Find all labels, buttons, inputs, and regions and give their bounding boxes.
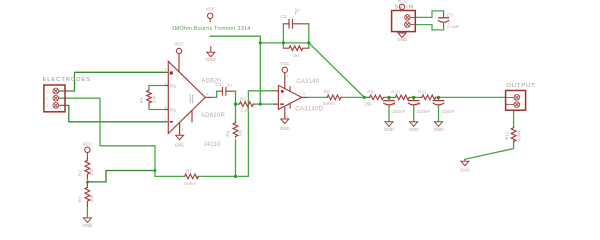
svg-text:R4: R4 bbox=[225, 130, 230, 136]
svg-text:2: 2 bbox=[47, 97, 49, 101]
wire RG resistor top bbox=[149, 86, 168, 89]
svg-text:C1: C1 bbox=[216, 82, 222, 87]
connector OUTPUT bbox=[506, 91, 526, 111]
vcc VCC (AD620 supply) bbox=[176, 48, 181, 53]
svg-text:25k: 25k bbox=[364, 102, 372, 107]
wire HPF node to R6 and CA3140 -IN bbox=[237, 103, 273, 105]
svg-text:R5: R5 bbox=[289, 41, 295, 46]
svg-text:GND: GND bbox=[83, 223, 93, 228]
svg-text:R1: R1 bbox=[139, 97, 144, 103]
svg-text:GND: GND bbox=[175, 142, 185, 147]
svg-text:RG: RG bbox=[170, 83, 177, 88]
svg-text:10k: 10k bbox=[89, 194, 94, 202]
svg-text:6: 6 bbox=[206, 92, 208, 96]
wire AD620 output to C1 bbox=[212, 91, 219, 97]
svg-text:GND: GND bbox=[384, 127, 394, 132]
node trimmer/feedback junction bbox=[259, 41, 262, 44]
resistor R10 bbox=[393, 95, 411, 100]
svg-text:GND: GND bbox=[397, 37, 407, 42]
node R4 reference rail bbox=[234, 175, 237, 178]
svg-text:3: 3 bbox=[273, 86, 275, 90]
wire OUTPUT pin2 down bbox=[513, 110, 515, 126]
svg-text:ELECTRODES: ELECTRODES bbox=[43, 77, 91, 83]
vcc VCC (divider) bbox=[85, 147, 90, 155]
svg-text:0ohm: 0ohm bbox=[184, 181, 196, 186]
svg-text:220nF: 220nF bbox=[392, 109, 405, 114]
svg-text:1: 1 bbox=[396, 16, 398, 20]
capacitor C5 bbox=[408, 97, 420, 105]
wire RG resistor bottom bbox=[149, 106, 168, 109]
svg-text:C2: C2 bbox=[280, 14, 286, 19]
svg-text:VCC: VCC bbox=[280, 61, 289, 66]
svg-text:R6: R6 bbox=[240, 96, 246, 101]
svg-text:10k: 10k bbox=[151, 95, 156, 103]
svg-text:R2: R2 bbox=[78, 170, 83, 176]
wire CA3140 output to R8 bbox=[308, 96, 326, 98]
resistor R8 bbox=[326, 95, 343, 100]
svg-text:8: 8 bbox=[165, 105, 167, 109]
svg-text:GND: GND bbox=[460, 167, 470, 172]
node divider midpoint bbox=[86, 180, 89, 183]
svg-text:F: F bbox=[295, 11, 298, 16]
svg-text:1: 1 bbox=[47, 90, 49, 94]
ground GND (CA3140) bbox=[281, 119, 289, 124]
capacitor C6 bbox=[433, 97, 445, 105]
node HPF bbox=[234, 102, 237, 105]
wire C3 bottom to 5V IN pin2 bbox=[415, 25, 443, 30]
svg-text:CA3140D: CA3140D bbox=[295, 105, 323, 112]
svg-text:AD620R: AD620R bbox=[201, 112, 226, 119]
svg-text:R7: R7 bbox=[186, 168, 192, 173]
ground GND (C6) bbox=[435, 122, 443, 127]
vcc VCC (5V IN) bbox=[399, 4, 404, 10]
ground GND (5V IN) bbox=[398, 32, 406, 38]
wire feedback diagonal to CA3140 output bbox=[309, 43, 365, 98]
op-amp U1 AD620 bbox=[165, 54, 212, 135]
svg-text:VCC: VCC bbox=[83, 141, 92, 146]
svg-text:0ohm: 0ohm bbox=[323, 101, 335, 106]
capacitor C3 bbox=[438, 11, 449, 26]
wire R4 top bbox=[235, 104, 237, 121]
wire C2 right riser bbox=[308, 24, 310, 48]
svg-text:2: 2 bbox=[396, 23, 398, 27]
svg-text:7: 7 bbox=[181, 63, 183, 67]
node ladder 2 bbox=[387, 96, 390, 99]
wire ladder node2 to node3 bbox=[411, 96, 420, 98]
svg-text:1: 1 bbox=[507, 96, 509, 100]
svg-text:1: 1 bbox=[165, 81, 167, 85]
svg-text:2: 2 bbox=[273, 100, 275, 104]
svg-text:1M: 1M bbox=[293, 53, 300, 58]
svg-text:1MOhm Bourns Trimmer 3314: 1MOhm Bourns Trimmer 3314 bbox=[172, 26, 251, 32]
resistor R6 bbox=[239, 102, 255, 107]
op-amp U2 CA3140 bbox=[273, 73, 308, 119]
capacitor C1 bbox=[218, 87, 232, 96]
svg-text:4: 4 bbox=[286, 115, 288, 119]
svg-text:2: 2 bbox=[507, 103, 509, 107]
resistor R4 bbox=[233, 121, 238, 138]
svg-text:2: 2 bbox=[165, 117, 167, 121]
wire ladder node4 to OUTPUT pin1 bbox=[439, 96, 506, 98]
svg-text:GND: GND bbox=[409, 127, 419, 132]
svg-text:VCC: VCC bbox=[174, 42, 183, 47]
svg-text:OUTPUT: OUTPUT bbox=[506, 83, 535, 89]
svg-text:220nF: 220nF bbox=[442, 109, 455, 114]
svg-text:10k: 10k bbox=[89, 168, 94, 176]
ground GND (C5) bbox=[410, 122, 418, 127]
wire ladder node3 to node4 bbox=[436, 96, 439, 98]
vcc VCC (CA3140 supply) bbox=[282, 67, 287, 72]
svg-text:R12: R12 bbox=[505, 131, 510, 140]
wire electrode pin1 to AD620 +IN bbox=[59, 72, 166, 91]
svg-text:1u: 1u bbox=[227, 83, 233, 88]
connector 5V IN bbox=[392, 11, 416, 32]
svg-text:R10: R10 bbox=[391, 89, 400, 94]
wire C1 to HPF node bbox=[232, 91, 236, 104]
svg-text:0.1uF: 0.1uF bbox=[447, 24, 459, 29]
svg-text:5V IN: 5V IN bbox=[395, 5, 414, 11]
svg-text:6: 6 bbox=[303, 92, 305, 96]
resistor R2 bbox=[85, 155, 90, 179]
wire electrode pin3 to AD620 -IN bbox=[59, 105, 166, 121]
svg-text:CA3140: CA3140 bbox=[296, 78, 320, 85]
ground GND (trimmer bottom) bbox=[207, 46, 215, 57]
ground GND (divider) bbox=[83, 218, 91, 223]
svg-text:7: 7 bbox=[286, 75, 288, 79]
svg-text:GND: GND bbox=[434, 127, 444, 132]
wire feedback node line bbox=[260, 42, 309, 44]
wire divider node to rail bbox=[88, 171, 155, 182]
node ladder 3 bbox=[412, 96, 415, 99]
svg-text:5: 5 bbox=[188, 114, 190, 118]
node C2R5 right bbox=[307, 41, 310, 44]
resistor R12 bbox=[511, 126, 516, 142]
resistor R7 bbox=[185, 174, 199, 179]
wire R4 bottom to rail bbox=[235, 140, 237, 177]
resistor R11 bbox=[420, 95, 438, 100]
wire R3 bottom to ground bbox=[86, 205, 88, 217]
vcc VCC (trimmer top) bbox=[208, 13, 213, 22]
node CA3140 inverting input bbox=[259, 103, 262, 106]
wire C2 left riser bbox=[282, 24, 284, 48]
svg-text:R3: R3 bbox=[78, 196, 83, 202]
svg-text:3: 3 bbox=[165, 68, 167, 72]
svg-text:R9: R9 bbox=[367, 89, 373, 94]
svg-text:R8: R8 bbox=[324, 89, 330, 94]
wire 5V IN pin1 to C3 bbox=[415, 11, 443, 18]
wire R8 to ladder node1 bbox=[342, 96, 368, 98]
resistor R5 bbox=[283, 46, 308, 51]
svg-text:J4110: J4110 bbox=[204, 141, 222, 148]
svg-text:R11: R11 bbox=[418, 89, 427, 94]
capacitor C2 bbox=[283, 19, 308, 29]
resistor R1 (gain) bbox=[147, 89, 152, 106]
connector ELECTRODES bbox=[44, 85, 65, 112]
ground GND (output load) bbox=[461, 159, 469, 166]
svg-text:RG: RG bbox=[170, 107, 177, 112]
wire electrode pin2 down-around to reference rail bbox=[59, 98, 155, 176]
svg-text:2.2k: 2.2k bbox=[240, 108, 250, 113]
ground GND (C4) bbox=[385, 122, 393, 127]
resistor R9 bbox=[367, 95, 385, 100]
svg-text:VCC: VCC bbox=[206, 6, 215, 11]
svg-text:3: 3 bbox=[47, 104, 49, 108]
svg-text:4: 4 bbox=[182, 128, 184, 132]
wire trimmer wiper feed bbox=[210, 36, 260, 104]
capacitor C4 bbox=[383, 97, 395, 105]
wire R12 to ground diagonal bbox=[465, 141, 514, 159]
wire C6 lead to ground bbox=[438, 106, 440, 121]
svg-text:C3: C3 bbox=[447, 13, 453, 18]
svg-text:VCC: VCC bbox=[397, 0, 406, 3]
node ladder 1 bbox=[363, 96, 366, 99]
ground GND (AD620) bbox=[176, 135, 184, 140]
wire reference rail through R7 to CA3140 +IN bbox=[155, 91, 273, 177]
node ladder 4 bbox=[437, 96, 440, 99]
resistor R3 bbox=[85, 182, 90, 206]
svg-text:GND: GND bbox=[206, 57, 216, 62]
svg-text:GND: GND bbox=[280, 126, 290, 131]
svg-text:220nF: 220nF bbox=[417, 109, 430, 114]
wire ladder node1 to node2 bbox=[385, 96, 393, 98]
svg-text:1M: 1M bbox=[238, 130, 243, 137]
svg-text:0ohm: 0ohm bbox=[517, 130, 522, 142]
wire C4 lead to ground bbox=[388, 106, 390, 121]
node C2R5 left bbox=[282, 41, 285, 44]
node rail corner bbox=[154, 169, 157, 172]
wire C5 lead to ground bbox=[413, 106, 415, 121]
